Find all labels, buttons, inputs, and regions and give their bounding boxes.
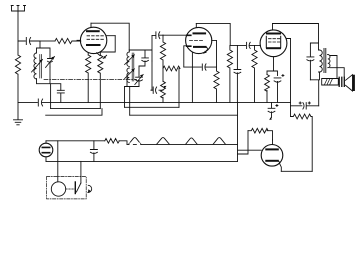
- wire heater vertical: [237, 102, 239, 161]
- capacitor C16: [152, 32, 163, 39]
- wire node A to R13: [40, 40, 55, 42]
- heater 50L6GT: [157, 138, 170, 145]
- wire screen to B+: [290, 39, 292, 117]
- wire audio plate to T1: [273, 24, 319, 51]
- tuning capacitor 270-375: [135, 75, 143, 87]
- wire cathode split: [267, 71, 278, 76]
- resistor R12: [98, 55, 103, 108]
- wire R11 left drop: [238, 131, 249, 154]
- resistor R1: [86, 55, 91, 102]
- wire secondary to speaker: [328, 55, 345, 78]
- wire DET plate top: [196, 23, 230, 45]
- capacitor C3: [57, 90, 64, 102]
- capacitor C10: [307, 43, 319, 80]
- trimmer capacitor C4: [46, 57, 55, 68]
- heater 12SQ7: [186, 138, 198, 144]
- resistor R8: [265, 75, 270, 103]
- resistor R10: [15, 41, 20, 102]
- capacitor C1: [18, 38, 40, 45]
- wire RF g2 to R12: [100, 36, 115, 56]
- resistor R2: [163, 66, 180, 107]
- switch drop wire: [80, 161, 82, 183]
- speaker SP1: [322, 75, 355, 91]
- switch S1: [66, 182, 81, 194]
- mech arrow: [88, 185, 92, 192]
- ground: [14, 102, 23, 124]
- capacitor C2: [18, 99, 291, 106]
- wire L2 top to C16/C6: [129, 35, 152, 61]
- wire rect cathode return: [281, 170, 312, 172]
- wire C16 node to DET grid: [163, 34, 186, 36]
- capacitor C7: [151, 87, 157, 93]
- capacitor C8: [184, 64, 217, 70]
- wire AC top line: [46, 140, 105, 142]
- tube U3 AUDIO OUTPUT 50L6GT: [260, 24, 290, 72]
- wire det out: [230, 44, 245, 46]
- resistor R7: [252, 45, 257, 102]
- wire AC bottom line: [46, 160, 238, 162]
- coil L2: [125, 50, 135, 82]
- wire node A down to L1/C4: [37, 41, 51, 58]
- heater string base wire: [127, 143, 238, 145]
- tube U4 RECTIFIER 35Z5GT: [261, 140, 283, 171]
- antenna: [11, 6, 25, 42]
- tube U2 DET B AUDIO 12SQ7: [184, 23, 217, 102]
- capacitor C11c: [274, 74, 284, 102]
- transformer T1: [319, 49, 330, 73]
- wire L2 bottom: [125, 78, 140, 116]
- wire T1 primary bottom: [310, 72, 319, 106]
- tube U1 RF AMPL 12SG7: [77, 23, 115, 58]
- bus B- left segment: [46, 109, 102, 116]
- wire L1 bottom bus: [37, 67, 61, 109]
- resistor R3: [160, 35, 165, 81]
- coil L1: [32, 53, 43, 79]
- resistor R11: [248, 128, 273, 140]
- gang dashed line: [44, 78, 137, 80]
- resistor R5: [214, 67, 219, 102]
- potentiometer R4 VOL CONT: [159, 81, 167, 102]
- bus line2 stub: [51, 108, 101, 110]
- plug P1: [39, 141, 53, 162]
- heater 35Z5GT: [129, 138, 142, 146]
- bus AVC: [125, 106, 180, 108]
- capacitor C11a: [291, 102, 319, 109]
- motor M1: [51, 182, 65, 196]
- motor feed wire: [57, 141, 59, 182]
- wire C6/C7 vertical: [151, 61, 152, 90]
- resistor R14: [105, 139, 127, 145]
- bus B- right segment: [130, 114, 238, 116]
- wire DET pin6 down: [216, 41, 218, 68]
- wire rect plate feed: [238, 149, 262, 151]
- capacitor C9 0.005MF coupling: [247, 42, 261, 48]
- capacitor C9 220: [234, 45, 241, 102]
- capacitor C14: [90, 141, 97, 162]
- resistor R13: [55, 38, 81, 43]
- capacitor C6: [139, 58, 148, 77]
- resistor R9: [291, 114, 313, 171]
- wire RF plate top: [91, 23, 129, 50]
- resistor R6: [227, 45, 232, 102]
- heater 12SG7: [213, 138, 226, 145]
- capacitor C11b: [268, 102, 278, 120]
- clock motor box: [47, 177, 87, 199]
